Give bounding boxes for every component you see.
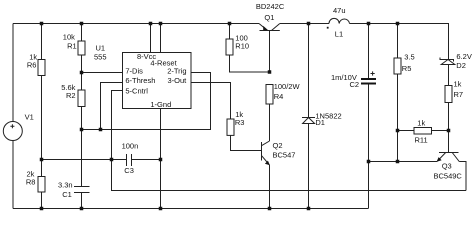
resistor R10 <box>226 39 233 55</box>
junction thresh drop <box>99 128 103 132</box>
svg-text:Q2: Q2 <box>273 141 283 150</box>
svg-text:1k: 1k <box>417 119 425 128</box>
svg-text:1k: 1k <box>454 80 462 89</box>
svg-text:C3: C3 <box>124 166 134 175</box>
svg-text:BC549C: BC549C <box>434 171 463 180</box>
svg-text:100n: 100n <box>122 141 139 150</box>
svg-text:R6: R6 <box>27 61 37 70</box>
wire bottom ground rail <box>13 208 368 210</box>
wire pin3 Out to R3 <box>191 83 231 120</box>
wire R6 to R8 <box>41 76 43 177</box>
wire D1 branch upper <box>308 24 310 118</box>
svg-text:Q3: Q3 <box>442 161 452 170</box>
svg-text:3.3n: 3.3n <box>58 181 73 190</box>
wire R1 to R2 <box>81 55 83 90</box>
junction top rail D1 <box>307 22 311 26</box>
capacitor C1 top plate <box>74 186 90 188</box>
svg-text:R10: R10 <box>235 42 249 51</box>
junction ground rail pin1 <box>159 207 163 211</box>
junction Q1 base R10 <box>268 70 272 74</box>
wire R7 to Q3 base node <box>448 103 450 131</box>
wire R11 line <box>398 130 449 132</box>
wire R10 branch upper <box>229 24 231 40</box>
wire Q2 base from R3 <box>231 136 262 151</box>
wire Q2 emitter to ground rail <box>269 165 271 209</box>
transistor Q3 <box>437 131 460 162</box>
svg-text:2-Trig: 2-Trig <box>167 66 186 75</box>
capacitor C3 left plate <box>126 154 128 166</box>
resistor R3 <box>227 119 234 135</box>
inductor L1 <box>329 18 350 23</box>
wire pin8 Vcc drop <box>150 24 152 53</box>
resistor R5 <box>394 58 401 74</box>
svg-text:D1: D1 <box>315 118 325 127</box>
svg-text:3.5: 3.5 <box>404 53 414 62</box>
svg-text:V1: V1 <box>25 112 34 121</box>
wire left rail upper <box>12 24 14 122</box>
transistor Q2 <box>262 141 270 165</box>
capacitor C3 right plate <box>131 154 133 166</box>
V1 plus sign <box>10 124 14 128</box>
svg-text:10k: 10k <box>63 33 75 42</box>
wire pin1 Gnd drop <box>160 109 162 209</box>
junction emitter line R5 <box>396 160 400 164</box>
svg-text:R8: R8 <box>26 177 36 186</box>
wire C2 branch upper <box>368 24 370 79</box>
svg-text:6-Thresh: 6-Thresh <box>125 76 155 85</box>
wire C3 branch right <box>132 159 161 161</box>
svg-text:5-Cntrl: 5-Cntrl <box>125 86 148 95</box>
wire ground riser <box>368 162 370 209</box>
resistor R1 <box>78 41 85 55</box>
wire R2 down to C1 <box>81 107 83 187</box>
C2 plus sign <box>371 71 375 75</box>
svg-text:R2: R2 <box>66 91 76 100</box>
svg-text:D2: D2 <box>456 61 466 70</box>
svg-text:R1: R1 <box>67 42 77 51</box>
resistor R6 <box>38 60 45 76</box>
wire pin2 Trig loop <box>82 73 211 130</box>
svg-text:1-Gnd: 1-Gnd <box>150 100 171 109</box>
svg-text:BC547: BC547 <box>273 150 296 159</box>
capacitor C2 bottom plate <box>361 83 376 85</box>
resistor R7 <box>445 86 452 103</box>
svg-text:R11: R11 <box>415 135 428 144</box>
svg-text:U1: U1 <box>96 44 106 53</box>
voltage source V1 <box>3 122 22 141</box>
svg-text:47u: 47u <box>333 6 346 15</box>
junction ground rail R8 <box>40 207 44 211</box>
wire top rail middle segment <box>280 23 329 25</box>
svg-text:Q1: Q1 <box>264 13 274 22</box>
wire R4 to Q2 collector <box>269 104 271 141</box>
wire R1 branch upper <box>81 24 83 42</box>
wire R5 down to emitter line <box>397 74 399 162</box>
capacitor C1 bottom plate <box>74 192 90 194</box>
wire pin4 Reset drop <box>160 24 162 53</box>
wire R6 branch upper <box>41 24 43 60</box>
junction C3 line pin5 <box>110 158 114 162</box>
wire top rail right segment <box>350 24 449 60</box>
junction top rail R1 <box>80 22 84 26</box>
diode D1 <box>302 118 315 124</box>
wire C1 to ground rail <box>81 193 83 209</box>
junction top rail pin8 <box>149 22 153 26</box>
junction pin7 node <box>80 71 84 75</box>
svg-text:6.2V: 6.2V <box>456 52 471 61</box>
wire R8 to ground rail <box>41 192 43 209</box>
junction top rail R6 <box>40 22 44 26</box>
capacitor C2 top plate <box>361 78 376 80</box>
junction C3 line R6 <box>40 158 44 162</box>
svg-text:L1: L1 <box>335 30 343 39</box>
wire feedback line to pin5 <box>112 160 467 191</box>
wire top rail left segment <box>13 23 259 25</box>
junction ground rail C1 <box>80 207 84 211</box>
resistor R4 <box>266 85 273 105</box>
junction emitter line C2 <box>367 160 371 164</box>
svg-text:7-Dis: 7-Dis <box>125 66 143 75</box>
wire C2 to emitter line <box>368 85 370 162</box>
svg-text:555: 555 <box>94 53 107 62</box>
svg-text:R4: R4 <box>274 92 284 101</box>
wire Q3 emitter line <box>369 161 438 163</box>
svg-text:R7: R7 <box>454 90 464 99</box>
junction ground rail D1 <box>307 207 311 211</box>
wire pin6 Thresh <box>101 83 123 130</box>
junction ground rail Q2 emitter <box>268 207 272 211</box>
wire C3 branch left <box>42 159 127 161</box>
junction R11 line R5 <box>396 129 400 133</box>
wire Q3 collector lead <box>459 162 466 191</box>
op-amp U1 555 timer box <box>123 53 192 109</box>
svg-text:R5: R5 <box>402 64 412 73</box>
junction C3 line pin1 <box>159 158 163 162</box>
junction top rail pin4 <box>159 22 163 26</box>
wire D2 to R7 <box>448 65 450 86</box>
wire R10 to Q1 base <box>230 55 270 72</box>
junction trig line left <box>80 128 84 132</box>
zener diode D2 <box>440 58 455 65</box>
svg-text:100/2W: 100/2W <box>274 82 301 91</box>
wire R5 branch upper <box>397 24 399 59</box>
svg-text:3-Out: 3-Out <box>168 76 188 85</box>
resistor R8 <box>38 177 45 193</box>
junction top rail C2 <box>367 22 371 26</box>
resistor R11 <box>414 128 432 135</box>
wire left rail lower <box>12 141 14 209</box>
L1 phase dot <box>327 27 329 29</box>
transistor Q1 <box>259 24 280 73</box>
junction top rail R5 <box>396 22 400 26</box>
svg-text:C2: C2 <box>350 80 360 89</box>
resistor R2 <box>78 90 85 107</box>
svg-text:C1: C1 <box>62 190 72 199</box>
wire pin7 Dis to R1/R2 node <box>82 72 123 74</box>
junction R11 line R7 <box>447 129 451 133</box>
svg-text:R3: R3 <box>235 118 245 127</box>
wire pin5 Cntrl <box>112 91 123 160</box>
svg-text:BD242C: BD242C <box>256 2 285 11</box>
wire D1 to ground rail <box>308 124 310 209</box>
junction top rail R10 <box>228 22 232 26</box>
